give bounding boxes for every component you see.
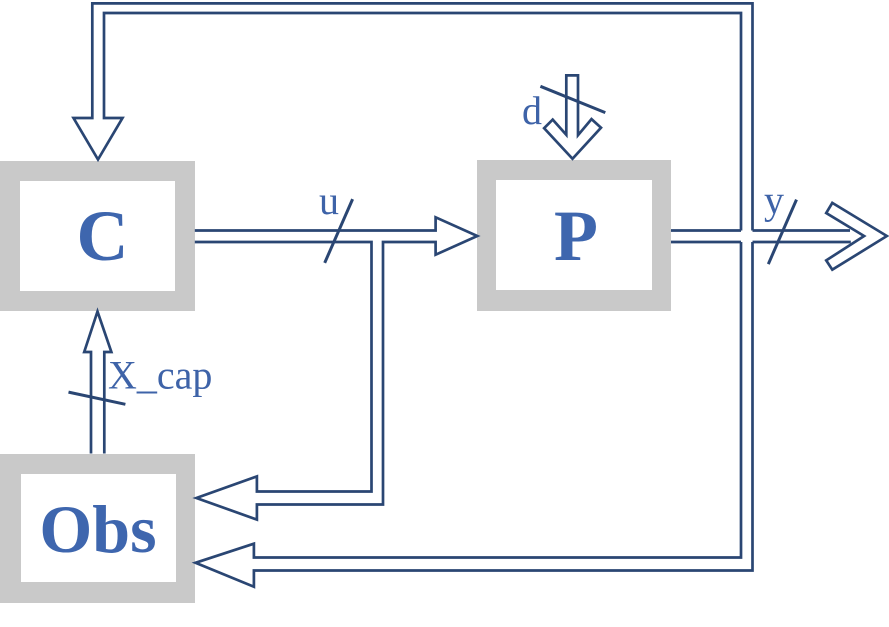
svg-text:P: P	[554, 196, 598, 276]
svg-text:X_cap: X_cap	[108, 353, 212, 398]
wire: u from C to P with arrowhead, branch down to Obs with arrowhead	[195, 217, 478, 519]
block Obs frame	[0, 454, 195, 603]
block C frame	[0, 161, 195, 311]
bus slash on d	[540, 86, 605, 112]
block P frame	[477, 160, 671, 311]
svg-text:Obs: Obs	[39, 491, 156, 567]
wire: y feedback down right side into Obs with arrowhead	[196, 242, 753, 587]
svg-text:u: u	[319, 178, 339, 223]
arrow d into P (shaft + chevron head)	[544, 75, 601, 158]
wire: y output from P, lower line	[671, 241, 851, 244]
wire: y output from P, upper line	[671, 229, 850, 232]
bus slash on X_cap	[69, 392, 126, 404]
svg-text:C: C	[77, 196, 129, 276]
svg-text:d: d	[522, 88, 542, 133]
arrowhead: y output chevron	[826, 203, 887, 270]
bus slash on u	[325, 199, 353, 263]
wire: top feedback loop with arrowhead into C	[74, 3, 753, 230]
arrow X_cap from Obs to C	[84, 312, 111, 454]
bus slash on y	[768, 200, 796, 265]
svg-text:y: y	[764, 178, 784, 223]
